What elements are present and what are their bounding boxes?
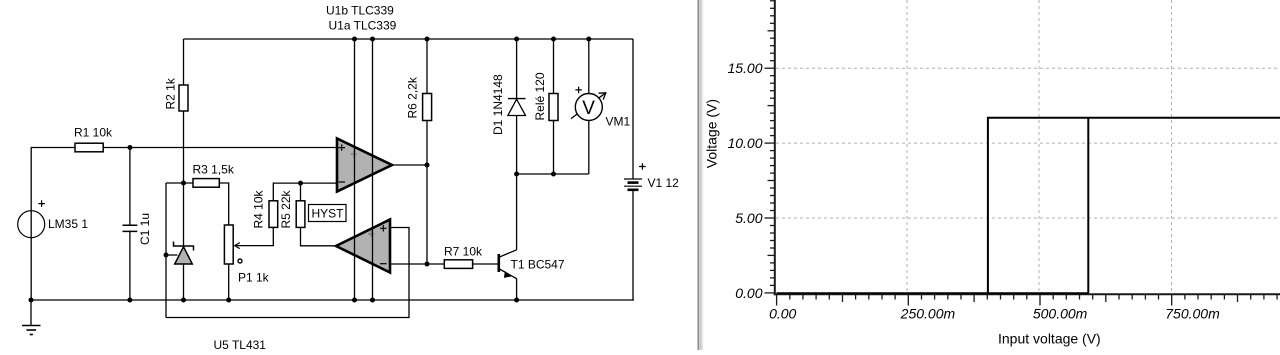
wire C1 vertical (129, 148, 131, 301)
battery V1 (624, 163, 646, 190)
svg-text:R1 10k: R1 10k (74, 126, 113, 140)
svg-text:R3 1,5k: R3 1,5k (193, 163, 235, 177)
svg-text:LM35 1: LM35 1 (48, 217, 88, 231)
source LM35 (18, 200, 89, 237)
diode D1 (491, 74, 526, 135)
wire R2 top lead (183, 39, 185, 85)
node top rail gnd pin (370, 37, 375, 42)
wire R6 leads (426, 39, 428, 165)
svg-text:P1 1k: P1 1k (238, 271, 270, 285)
svg-text:V: V (582, 98, 595, 119)
node rail TL431 (181, 298, 186, 303)
svg-text:U1b TLC339: U1b TLC339 (326, 4, 394, 18)
wire R4 bottom to P1 wiper (236, 227, 273, 245)
wire bottom ground rail (31, 299, 634, 301)
node U1b out (425, 163, 430, 168)
chart x-axis (774, 293, 1280, 295)
wire R1 right to U1b + input (103, 147, 337, 149)
wire TL431 anode to rail (183, 264, 185, 300)
svg-text:U5 TL431: U5 TL431 (214, 338, 267, 350)
svg-text:0.00: 0.00 (769, 306, 796, 322)
node relay bottom (551, 172, 556, 177)
wire battery leads (632, 39, 634, 300)
wire node A horizontal to R3 (166, 182, 193, 184)
svg-text:R6 2,2k: R6 2,2k (406, 76, 420, 118)
wire T1 emitter down (516, 279, 518, 301)
wire P1 bottom to rail (228, 264, 230, 300)
svg-text:R5 22k: R5 22k (279, 189, 293, 228)
capacitor C1 (123, 213, 153, 245)
svg-text:10.00: 10.00 (727, 135, 762, 151)
wire R5 bottom to U1a output (301, 227, 337, 245)
wire VM1 leads (588, 39, 590, 174)
svg-text:HYST: HYST (311, 207, 344, 221)
svg-text:250.00m: 250.00m (900, 306, 956, 322)
wire relay leads (553, 39, 555, 174)
HYST label box (309, 205, 347, 222)
resistor R2 (164, 77, 189, 111)
wire R3 right to P1 top (219, 183, 228, 225)
svg-text:5.00: 5.00 (735, 210, 762, 226)
node ground rail left (29, 298, 34, 303)
node TL431 ref (164, 253, 169, 258)
wire R4 top lead and U1b - input (273, 183, 337, 201)
node D1 bottom (514, 172, 519, 177)
voltmeter VM1 (571, 87, 631, 129)
svg-text:V1 12: V1 12 (648, 176, 680, 190)
svg-text:500.00m: 500.00m (1033, 306, 1088, 322)
node R1-C1 (127, 145, 132, 150)
potentiometer P1 (224, 225, 269, 285)
svg-text:D1 1N4148: D1 1N4148 (491, 74, 505, 135)
wire TL431 ref connection (166, 254, 178, 256)
wire U1b output down to comparator line (426, 165, 428, 264)
wire top supply rail (184, 38, 634, 40)
svg-text:R7 10k: R7 10k (444, 245, 483, 259)
svg-text:C1 1u: C1 1u (138, 213, 152, 245)
wire supply line V+ over op-amps (354, 39, 356, 300)
node top rail D1 (514, 37, 519, 42)
node U1b out R7 (425, 262, 430, 267)
svg-text:15.00: 15.00 (727, 60, 762, 76)
svg-text:R2 1k: R2 1k (164, 77, 178, 109)
svg-text:T1 BC547: T1 BC547 (511, 258, 565, 272)
node rail C1 (127, 298, 132, 303)
chart x-axis ticks (777, 295, 1278, 306)
svg-text:750.00m: 750.00m (1165, 306, 1220, 322)
node top rail VM1 (586, 37, 591, 42)
panel divider (698, 0, 702, 350)
chart y-axis ticks (765, 1, 775, 293)
TL431 U5 (174, 242, 267, 353)
resistor R1 (74, 126, 113, 152)
chart y-axis (774, 0, 776, 295)
wire node D1-relay-VM1 (517, 173, 589, 175)
chart grid horizontal dashed (776, 68, 1280, 218)
resistor R4 (252, 189, 278, 228)
svg-text:VM1: VM1 (606, 115, 631, 129)
wire TL431 cathode lead (183, 183, 185, 246)
wire T1 collector up (516, 174, 518, 250)
wire ref loop left vertical (165, 183, 167, 318)
node R5 top (298, 181, 303, 186)
ground (22, 300, 41, 335)
node rail V+ line (352, 298, 357, 303)
node rail P1 (226, 298, 231, 303)
resistor R5 (279, 189, 305, 228)
relay coil Rele 120 (533, 72, 558, 120)
chart grid vertical dashed (907, 0, 1172, 293)
wire U1b output (392, 164, 427, 166)
op-amp U1a (329, 19, 397, 273)
chart x tick labels (769, 306, 1220, 322)
svg-text:Voltage (V): Voltage (V) (704, 99, 720, 168)
node A R2-R3-TL431 (181, 181, 186, 186)
svg-text:R4 10k: R4 10k (252, 189, 266, 228)
svg-text:U1a TLC339: U1a TLC339 (329, 19, 397, 33)
node top rail R6 (425, 37, 430, 42)
node rail gnd line (370, 298, 375, 303)
wire R7 right to T1 base (473, 263, 498, 265)
svg-text:Input voltage (V): Input voltage (V) (998, 331, 1101, 347)
wire LM35 through to R1 and rail (31, 148, 75, 301)
node rail T1 emitter (514, 298, 519, 303)
chart curve hysteresis output (777, 118, 1280, 294)
wire R2 bottom to node A (183, 111, 185, 183)
chart y tick labels (727, 60, 762, 301)
wire U1a - input to R7 (390, 263, 444, 265)
op-amp U1b (326, 4, 394, 192)
wire feedback bottom to U1a + input (166, 228, 409, 318)
resistor R6 (406, 76, 432, 120)
wire R5 top lead (300, 183, 302, 201)
node top rail relay (551, 37, 556, 42)
node top rail V+ (352, 37, 357, 42)
svg-text:Relé 120: Relé 120 (533, 72, 547, 120)
transistor T1 (499, 250, 565, 279)
svg-text:0.00: 0.00 (735, 285, 762, 301)
resistor R3 (193, 163, 235, 188)
wire supply line GND over op-amps (372, 39, 374, 300)
resistor R7 (444, 245, 483, 269)
wire D1 leads (516, 39, 518, 174)
